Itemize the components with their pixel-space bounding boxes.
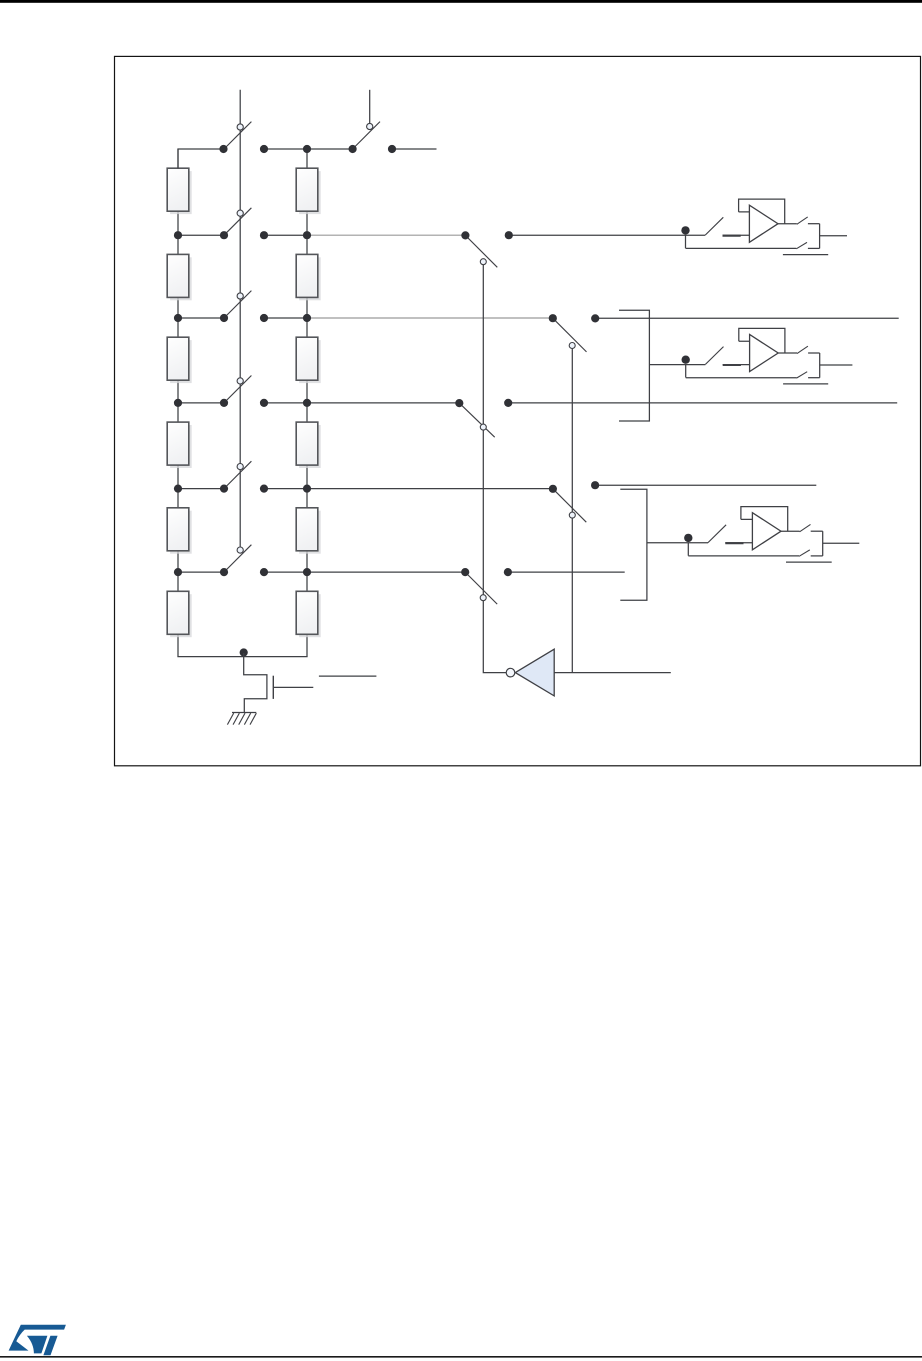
transistor Q1	[244, 653, 314, 712]
node row0 dot5	[388, 145, 396, 153]
switch contact T5	[480, 595, 486, 601]
op-amp U2	[682, 328, 853, 384]
switch contact T4	[569, 512, 575, 518]
switch contact S3a	[237, 378, 243, 384]
node row4 dotD	[303, 485, 311, 493]
node row2 dotA	[174, 314, 182, 322]
node sel dot10	[504, 568, 512, 576]
node sel dot2	[505, 231, 513, 239]
node sel dot9	[461, 568, 469, 576]
resistor RB1	[296, 168, 321, 214]
wire row4 segA	[178, 488, 224, 490]
switch contact S2a	[237, 293, 243, 299]
switch contact T1	[480, 259, 486, 265]
switch blade T2	[553, 318, 587, 352]
node sel dot5	[455, 399, 463, 407]
switch blade T4	[553, 489, 586, 522]
wire bottom rail	[177, 656, 307, 658]
op-amp U3	[684, 507, 859, 562]
switch blade S2a	[224, 291, 251, 318]
ST logo	[9, 1325, 66, 1356]
resistor RA3	[167, 337, 192, 383]
wire row0 left	[178, 149, 224, 168]
wire row2 segA	[178, 317, 224, 319]
wire row4 segB	[264, 488, 307, 490]
wire row4 right	[595, 484, 816, 486]
node row1 dotC	[260, 231, 268, 239]
wire select bus	[239, 90, 241, 553]
resistor RA4	[167, 422, 192, 468]
node sel dot7	[549, 485, 557, 493]
wire row3 segA	[178, 402, 224, 404]
node sel dot6	[504, 399, 512, 407]
resistor RA1	[167, 168, 192, 214]
switch contact S4a	[237, 464, 243, 470]
wire bracket2 to U3	[647, 542, 708, 544]
node sel dot1	[461, 231, 469, 239]
switch contact T3	[480, 424, 486, 430]
switch blade T5	[465, 572, 497, 604]
op-amp U1	[681, 199, 847, 255]
wire row3 right	[508, 402, 897, 404]
wire row4 ext	[307, 488, 553, 490]
wire top stub	[369, 90, 371, 126]
bracket group1	[619, 310, 649, 421]
resistor RB4	[296, 422, 321, 468]
node row0 dot4	[349, 145, 357, 153]
node row5 dotB	[220, 568, 228, 576]
node row3 dotD	[303, 399, 311, 407]
wire row3 ext	[307, 402, 459, 404]
node row2 dotB	[220, 314, 228, 322]
wire row1 to buffer	[509, 234, 705, 236]
node sel dot8	[591, 481, 599, 489]
node row2 dotD	[303, 314, 311, 322]
resistor RB2	[296, 254, 321, 300]
wire row5 segA	[178, 571, 224, 573]
switch blade T1	[465, 235, 497, 267]
switch blade S1a	[224, 208, 251, 235]
switch contact S1a	[237, 210, 243, 216]
node row1 dotA	[174, 231, 182, 239]
resistor RB6	[296, 591, 321, 637]
resistor RA6	[167, 591, 192, 637]
footer rule	[0, 1356, 922, 1358]
switch blade S5a	[224, 545, 251, 572]
inverter U4	[506, 649, 554, 696]
wire row0 mid	[264, 148, 353, 150]
node row4 dotC	[260, 485, 268, 493]
wire bracket1 to U2	[649, 364, 705, 366]
node row0 dot3	[303, 145, 311, 153]
node row3 dotC	[260, 399, 268, 407]
resistor RB5	[296, 508, 321, 554]
switch blade S0a	[224, 122, 251, 149]
node row4 dotA	[174, 485, 182, 493]
resistor RB3	[296, 337, 321, 383]
node sel dot3	[549, 314, 557, 322]
wire bus C	[483, 262, 506, 673]
switch blade S4a	[224, 461, 251, 488]
wire inverter input	[554, 672, 671, 674]
wire column B spine	[306, 149, 308, 657]
node row5 dotD	[303, 568, 311, 576]
node row5 dotC	[260, 568, 268, 576]
node row1 dotB	[220, 231, 228, 239]
wire row2 segB	[264, 317, 307, 319]
switch blade S0b	[353, 122, 380, 149]
node sel dot4	[591, 314, 599, 322]
wire column A spine	[177, 149, 179, 657]
wire row5 ext	[307, 571, 465, 573]
top rule	[0, 0, 922, 3]
node row5 dotA	[174, 568, 182, 576]
node row0 dot1	[219, 145, 227, 153]
switch contact T2	[569, 343, 575, 349]
node row3 dotA	[174, 399, 182, 407]
wire row5 segB	[264, 571, 307, 573]
wire gate label line	[319, 675, 377, 677]
wire row2 ext gray	[307, 317, 553, 319]
node row0 dot2	[260, 145, 268, 153]
ground	[227, 713, 256, 725]
wire bus D	[571, 346, 573, 673]
node row2 dotC	[260, 314, 268, 322]
wire row0 right	[392, 148, 437, 150]
switch blade S3a	[224, 376, 251, 403]
wire row1 ext gray	[307, 234, 465, 236]
switch contact S5a	[237, 547, 243, 553]
node row4 dotB	[220, 485, 228, 493]
resistor RA2	[167, 254, 192, 300]
wire row2 right	[595, 317, 899, 319]
node drain dot	[240, 648, 248, 656]
switch contact S0b	[367, 123, 373, 129]
switch blade T3	[459, 403, 494, 437]
node row1 dotD	[303, 231, 311, 239]
schematic frame	[115, 56, 921, 765]
resistor RA5	[167, 508, 192, 554]
wire row1 segB	[264, 234, 307, 236]
wire row5 right	[508, 571, 625, 573]
node row3 dotB	[220, 399, 228, 407]
switch contact S0a	[237, 124, 243, 130]
bracket group2	[620, 489, 647, 600]
wire row3 segB	[264, 402, 307, 404]
wire row1 segA	[178, 234, 224, 236]
